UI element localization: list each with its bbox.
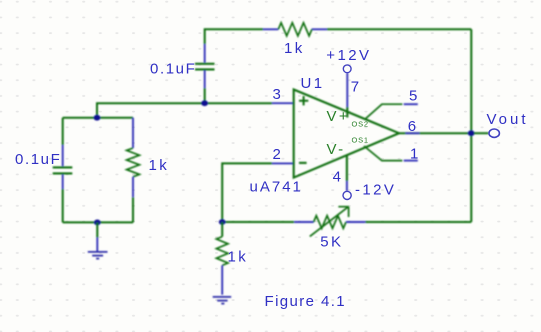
svg-text:OS2: OS2 — [352, 120, 369, 129]
wire: stem to left ground — [96, 222, 98, 252]
wire: from C2 bottom down to non-inverting rail — [204, 88, 206, 103]
svg-text:Figure 4.1: Figure 4.1 — [265, 293, 347, 310]
wire: pin 2 to bottom node — [222, 163, 272, 222]
svg-text:-12V: -12V — [355, 182, 396, 199]
svg-text:2: 2 — [273, 146, 284, 163]
op-amp U1 triangle — [294, 90, 399, 178]
svg-text:+12V: +12V — [326, 47, 371, 64]
wire: left RC top rail — [63, 117, 133, 119]
wire: non-inverting input rail to pin 3 — [97, 103, 272, 118]
resistor R4 5K (variable, bottom) — [294, 207, 365, 237]
svg-text:1k: 1k — [149, 157, 170, 174]
svg-text:1k: 1k — [228, 249, 249, 266]
power +12V port stem wire — [346, 73, 348, 118]
svg-text:Vout: Vout — [487, 111, 529, 128]
svg-text:3: 3 — [273, 86, 284, 103]
capacitor C1 0.1uF (left vertical) — [53, 118, 73, 223]
op-amp minus input marker — [299, 162, 307, 164]
junction: left RC bottom node — [94, 220, 101, 226]
junction: C2 / pin3 rail — [201, 100, 208, 106]
pin 1 lead (offset null OS1) — [364, 146, 418, 161]
svg-text:6: 6 — [408, 118, 419, 135]
capacitor C2 0.1uF (top) — [195, 44, 215, 88]
svg-text:5K: 5K — [320, 234, 343, 251]
wire: right vertical rail — [470, 29, 472, 222]
wire: bottom rail from node to right rail — [222, 221, 471, 223]
pin 3 lead of U1 — [272, 102, 294, 104]
resistor R2 1k (left vertical) — [127, 118, 140, 223]
ground symbol (left, under RC) — [88, 252, 108, 259]
power +12V port circle — [343, 65, 351, 73]
wire: stub to Vout terminal — [474, 132, 489, 134]
node Vout terminal circle — [489, 129, 499, 137]
junction: bottom node (pin2 / R3 / R4) — [219, 219, 226, 225]
svg-text:OS1: OS1 — [352, 136, 369, 145]
svg-text:uA741: uA741 — [250, 179, 303, 196]
op-amp plus input marker — [299, 96, 308, 105]
wire: top feedback rail from C2 top to R1 and on to right rail — [205, 29, 472, 44]
svg-text:0.1uF: 0.1uF — [150, 61, 196, 78]
ground symbol (bottom, under R3) — [213, 297, 232, 304]
svg-text:5: 5 — [409, 87, 420, 104]
svg-text:1: 1 — [410, 145, 421, 162]
svg-text:U1: U1 — [301, 75, 325, 92]
svg-text:V+: V+ — [327, 108, 351, 125]
resistor R1 1k (top feedback) — [263, 23, 327, 36]
power -12V port stem wire — [346, 156, 348, 192]
pin 2 lead of U1 — [272, 162, 294, 164]
svg-text:7: 7 — [351, 79, 362, 96]
power -12V port circle — [343, 191, 351, 199]
junction: output node — [468, 130, 475, 136]
wire: output pin 6 to right rail — [399, 132, 471, 134]
resistor R3 1k (bottom vertical) — [216, 222, 228, 295]
pin 5 lead (offset null OS2) — [365, 104, 418, 119]
svg-text:0.1uF: 0.1uF — [15, 151, 61, 168]
svg-text:1k: 1k — [284, 40, 305, 57]
wire: left RC bottom rail — [63, 221, 133, 223]
svg-text:V-: V- — [327, 141, 346, 158]
junction: left RC top node — [94, 115, 101, 121]
svg-text:4: 4 — [333, 169, 344, 186]
